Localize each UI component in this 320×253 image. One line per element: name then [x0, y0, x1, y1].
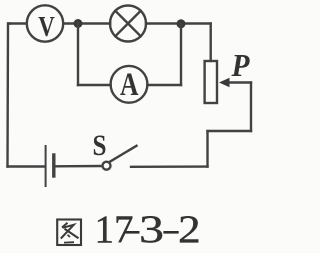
wire right corner down to rheostat top	[209, 24, 211, 62]
wire wiper right vertical down	[250, 83, 252, 132]
wire vertical down to bottom	[206, 131, 208, 167]
battery B1 short plate	[52, 155, 55, 176]
caption dash 2	[163, 231, 178, 234]
node junction dot 1	[74, 19, 83, 28]
rheostat P body	[205, 61, 217, 103]
wire left vertical	[8, 24, 10, 167]
wire bottom right to switch	[131, 165, 208, 168]
wire bottom left to battery	[8, 165, 45, 167]
wire to ammeter left	[78, 84, 111, 86]
svg-text:S: S	[93, 129, 107, 162]
wire top from left corner to voltmeter	[9, 22, 27, 24]
switch S1 pivot	[103, 162, 111, 170]
svg-text:2: 2	[178, 208, 201, 251]
wire battery to switch pivot	[56, 165, 103, 168]
svg-text:V: V	[38, 12, 55, 43]
caption dash 1	[125, 231, 139, 234]
node junction dot 2	[177, 19, 186, 28]
switch S1 blade	[110, 146, 137, 162]
svg-text:17: 17	[95, 208, 134, 251]
caption glyph tu (figure)	[57, 220, 81, 246]
rheostat wiper arrow	[219, 78, 251, 88]
wire lamp to right corner	[146, 22, 211, 24]
svg-text:A: A	[120, 67, 139, 103]
wire junction1 down to ammeter row	[77, 24, 79, 86]
wire ammeter right	[147, 84, 181, 86]
wire voltmeter to lamp	[63, 22, 110, 24]
ammeter U2 A	[111, 66, 148, 103]
wire horizontal mid right	[208, 130, 252, 132]
battery B1 long plate	[45, 146, 47, 186]
svg-text:3: 3	[139, 208, 164, 251]
svg-text:P: P	[231, 47, 250, 83]
lamp L1	[110, 6, 146, 42]
voltmeter U1 V	[27, 5, 63, 43]
wire up to junction 2	[180, 24, 182, 85]
